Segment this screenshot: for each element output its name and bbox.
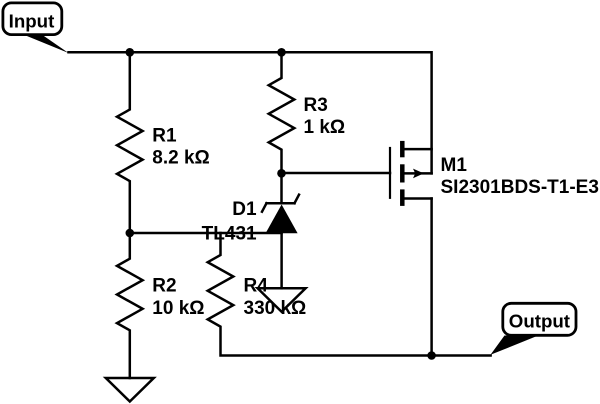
svg-text:330 kΩ: 330 kΩ [244,298,307,319]
svg-text:R2: R2 [152,276,176,297]
svg-text:Input: Input [9,11,55,32]
svg-text:R3: R3 [304,95,328,116]
svg-text:Output: Output [509,310,570,331]
svg-text:1 kΩ: 1 kΩ [304,117,346,138]
svg-text:8.2 kΩ: 8.2 kΩ [152,148,210,169]
svg-text:R1: R1 [152,126,177,147]
svg-text:TL431: TL431 [202,224,257,245]
svg-text:R4: R4 [244,276,269,297]
svg-text:10 kΩ: 10 kΩ [152,298,204,319]
svg-text:D1: D1 [232,199,257,220]
svg-text:SI2301BDS-T1-E3: SI2301BDS-T1-E3 [441,177,599,198]
svg-text:M1: M1 [441,155,468,176]
